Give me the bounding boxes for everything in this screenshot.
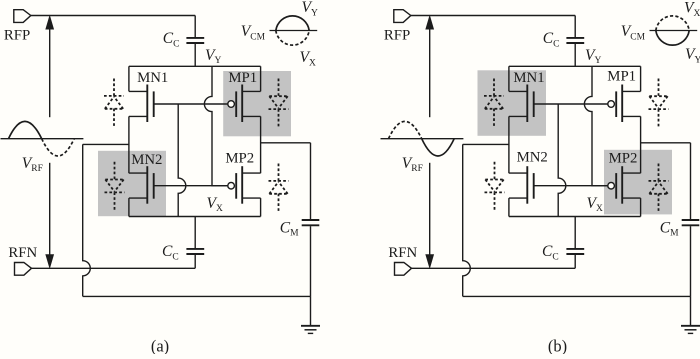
wire MN2 source to V_X rail (a) — [128, 198, 130, 216]
svg-text:RFP: RFP — [4, 28, 30, 44]
V_RF sine wave second half (b) — [422, 139, 455, 156]
wire mid node to C_M (b) — [641, 142, 691, 144]
svg-text:CM: CM — [660, 219, 679, 238]
V_RF sine wave axis (b) — [381, 138, 464, 140]
svg-text:RFP: RFP — [384, 28, 410, 44]
port RFN (b) — [395, 263, 412, 276]
wire mid node to C_M (a) — [261, 142, 311, 144]
svg-text:MN2: MN2 — [517, 150, 548, 166]
V_CM upper arc (b) — [656, 16, 689, 31]
highlight box around MP1 and its diode (a) — [223, 71, 291, 136]
wire MP1 drain to V_Y rail (b) — [640, 66, 642, 91]
wire V_Y rail (a) — [129, 65, 261, 67]
svg-text:VX: VX — [587, 195, 603, 214]
wire MP1 source to MP2 drain (a) — [260, 116, 262, 173]
diode of MN1 (dashed, pointing up) (a) — [113, 79, 115, 97]
wire MP2 source to V_X rail (b) — [640, 198, 642, 216]
transistor MP2 (a) — [241, 166, 243, 204]
capacitor C_C (bottom) (b) — [574, 217, 576, 249]
highlight box around MN1 and its diode (b) — [478, 70, 547, 136]
transistor MN1 (a) — [146, 85, 148, 123]
capacitor C_C (top) (a) — [194, 16, 196, 38]
wire bottom rail to ground (a) — [83, 295, 311, 297]
diode of MN2 (dashed, pointing down) (b) — [494, 162, 496, 180]
wire MN1 source to MN2 drain (a) — [128, 116, 130, 173]
ground (a) — [310, 296, 312, 325]
wire MP2 source to V_X rail (a) — [260, 198, 262, 216]
V_RF sine wave axis (a) — [1, 138, 84, 140]
wire MN1 gate to MP1 gate (b) — [534, 103, 608, 105]
svg-text:MP2: MP2 — [225, 150, 254, 166]
wire left tap from MN1/MN2 node (a) — [83, 143, 129, 145]
wire V_Y down to MN2/MP2 gates, hop over MN1 gate wire (b) — [584, 66, 607, 185]
svg-text:CM: CM — [280, 219, 299, 238]
svg-text:VCM: VCM — [621, 23, 646, 42]
port RFP (b) — [394, 10, 411, 23]
capacitor C_M (a) — [310, 143, 312, 219]
wire left vertical, hop over RFN wire (a) — [83, 144, 91, 296]
diode of MP1 (dashed, pointing down) (b) — [658, 79, 660, 97]
wire MN1 gate to MP1 gate (a) — [154, 103, 228, 105]
svg-text:RFN: RFN — [388, 245, 417, 261]
transistor MP1 (a) — [241, 85, 243, 123]
wire MP1 source to MP2 drain (b) — [640, 116, 642, 173]
transistor MN2 (b) — [526, 166, 528, 204]
wire RFP to C_C top (a) — [31, 15, 195, 17]
diode of MP2 (dashed, pointing up) (b) — [658, 164, 660, 182]
svg-text:VY: VY — [302, 0, 318, 18]
svg-text:CC: CC — [162, 243, 179, 262]
V_CM lower arc (a) — [276, 31, 309, 46]
V_RF arrow (double-headed) (a) — [49, 28, 51, 118]
svg-text:MN1: MN1 — [137, 70, 168, 86]
svg-text:(a): (a) — [151, 337, 169, 355]
port RFN (a) — [15, 263, 32, 276]
wire V_Y down to MN2/MP2 gates, hop over MN1 gate wire (a) — [204, 66, 227, 185]
wire MN1 source to MN2 drain (b) — [508, 116, 510, 173]
port RFP (a) — [14, 10, 31, 23]
wire MN2 gate to MP2 gate (b) — [534, 185, 608, 187]
svg-text:MN2: MN2 — [131, 152, 162, 168]
V_RF sine wave first half (b) — [389, 121, 422, 138]
capacitor C_C (bottom) (a) — [194, 217, 196, 249]
wire left tap from MN1/MN2 node (b) — [463, 143, 509, 145]
wire V_X rail (b) — [509, 216, 641, 218]
svg-text:VY: VY — [585, 47, 601, 66]
wire MN2 source to V_X rail (b) — [508, 198, 510, 216]
diode of MN1 (dashed, pointing up) (b) — [493, 79, 495, 97]
wire left vertical, hop over RFN wire (b) — [463, 144, 471, 296]
wire MN2 gate to MP2 gate (a) — [154, 185, 228, 187]
svg-text:VRF: VRF — [402, 155, 423, 174]
svg-text:RFN: RFN — [8, 245, 37, 261]
svg-text:VCM: VCM — [241, 23, 266, 42]
wire V_Y rail (b) — [509, 65, 641, 67]
diode of MN2 (dashed, pointing down) (a) — [114, 162, 116, 180]
svg-text:(b): (b) — [548, 337, 567, 355]
svg-text:VRF: VRF — [22, 155, 43, 174]
svg-text:VX: VX — [300, 49, 316, 68]
wire V_Y rail to MN1 drain (a) — [128, 66, 130, 91]
svg-text:MP2: MP2 — [609, 150, 638, 166]
highlight box around MP2 and its diode (b) — [604, 150, 672, 215]
wire gates down to V_X rail, hop over MN2 gate wire (a) — [178, 104, 186, 217]
wire MP1 drain to V_Y rail (a) — [260, 66, 262, 91]
svg-text:MP1: MP1 — [228, 70, 257, 86]
V_RF sine wave first half (a) — [9, 121, 42, 138]
svg-text:MN1: MN1 — [513, 70, 544, 86]
transistor MP1 (b) — [621, 85, 623, 123]
wire RFN to C_C bottom (a) — [32, 267, 196, 269]
wire RFN to C_C bottom (b) — [412, 267, 576, 269]
capacitor C_M (b) — [690, 143, 692, 219]
wire V_Y rail to MN1 drain (b) — [508, 66, 510, 91]
svg-text:MP1: MP1 — [607, 68, 636, 84]
svg-text:VY: VY — [205, 47, 221, 66]
transistor MN1 (b) — [526, 85, 528, 123]
wire bottom rail to ground (b) — [463, 295, 691, 297]
highlight box around MN2 and its diode (a) — [98, 151, 166, 216]
svg-text:CC: CC — [543, 30, 560, 49]
svg-text:CC: CC — [163, 30, 180, 49]
V_RF sine wave second half (a) — [42, 139, 74, 156]
V_CM axis line (b) — [650, 30, 698, 32]
diode of MP2 (dashed, pointing up) (a) — [278, 164, 280, 182]
wire gates down to V_X rail, hop over MN2 gate wire (b) — [558, 104, 566, 217]
V_CM upper arc (a) — [276, 16, 309, 31]
svg-text:VX: VX — [207, 195, 223, 214]
transistor MP2 (b) — [621, 166, 623, 204]
V_CM lower arc (b) — [656, 31, 689, 46]
svg-text:CC: CC — [542, 243, 559, 262]
diode of MP1 (dashed, pointing down) (a) — [278, 79, 280, 97]
wire V_X rail (a) — [129, 216, 261, 218]
transistor MN2 (a) — [146, 166, 148, 204]
wire RFP to C_C top (b) — [411, 15, 575, 17]
V_RF arrow (double-headed) (b) — [429, 28, 431, 118]
capacitor C_C (top) (b) — [574, 16, 576, 38]
ground (b) — [690, 296, 692, 325]
svg-text:VY: VY — [685, 46, 700, 65]
svg-text:VX: VX — [684, 0, 700, 19]
V_CM axis line (a) — [270, 30, 318, 32]
